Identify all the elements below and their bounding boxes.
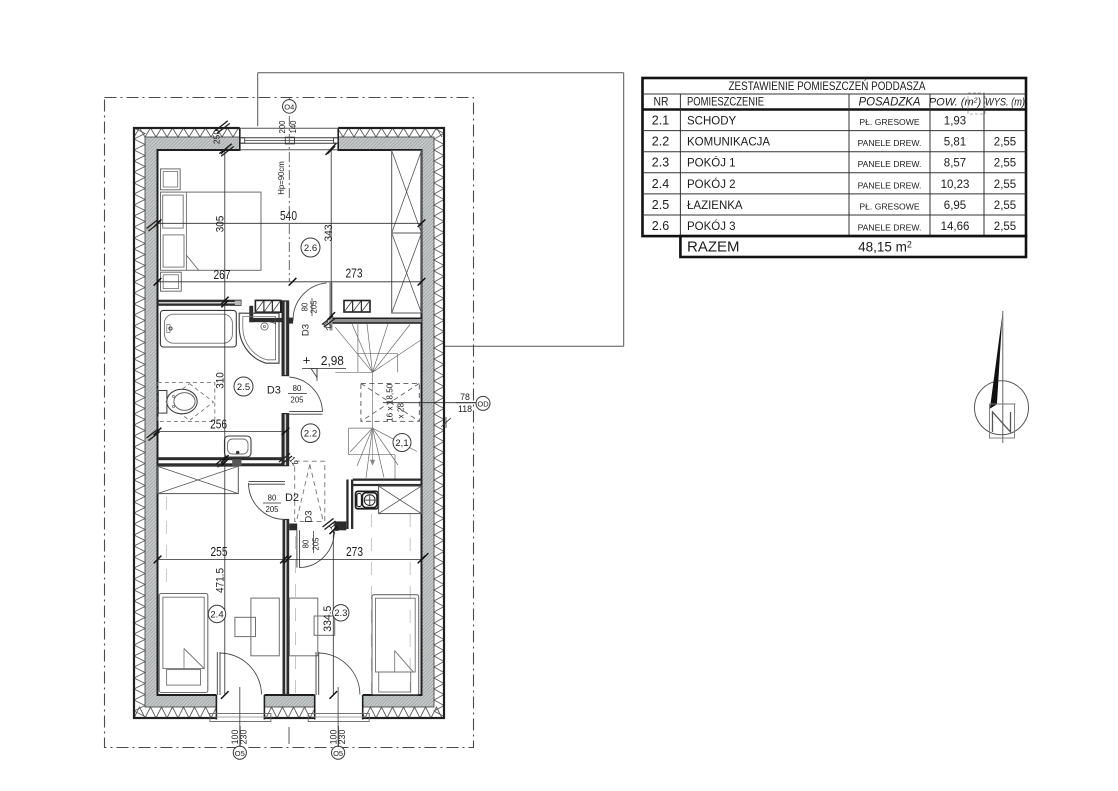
svg-text:6,95: 6,95: [944, 200, 966, 212]
svg-text:256: 256: [210, 418, 227, 432]
svg-text:POKÓJ 3: POKÓJ 3: [687, 220, 736, 233]
svg-text:343: 343: [323, 225, 335, 242]
svg-text:2,55: 2,55: [994, 200, 1016, 212]
svg-text:POMIESZCZENIE: POMIESZCZENIE: [687, 94, 764, 108]
svg-text:SCHODY: SCHODY: [687, 116, 737, 128]
svg-text:2.5: 2.5: [237, 382, 250, 393]
svg-text:540: 540: [280, 209, 297, 223]
svg-text:2.6: 2.6: [652, 219, 669, 233]
svg-text:2.2: 2.2: [304, 429, 317, 440]
svg-text:255: 255: [211, 545, 228, 559]
svg-text:2,55: 2,55: [994, 158, 1016, 170]
svg-text:O5: O5: [235, 749, 245, 758]
svg-text:D3: D3: [303, 510, 314, 522]
svg-text:2,55: 2,55: [994, 137, 1016, 149]
svg-text:80: 80: [293, 384, 302, 393]
svg-text:205: 205: [310, 300, 319, 314]
svg-text:140: 140: [289, 120, 298, 134]
svg-text:ŁAZIENKA: ŁAZIENKA: [687, 200, 743, 212]
svg-text:PANELE DREW.: PANELE DREW.: [858, 223, 922, 233]
svg-text:334.5: 334.5: [322, 606, 334, 632]
svg-text:2.6: 2.6: [304, 243, 317, 254]
svg-text:205: 205: [290, 396, 304, 405]
svg-text:2.4: 2.4: [652, 177, 669, 191]
svg-text:1,93: 1,93: [944, 116, 966, 128]
svg-text:PŁ. GRESOWE: PŁ. GRESOWE: [859, 201, 919, 211]
svg-text:205: 205: [265, 505, 279, 514]
svg-text:310: 310: [214, 372, 226, 389]
svg-text:POKÓJ 2: POKÓJ 2: [687, 178, 736, 191]
svg-text:80: 80: [301, 302, 310, 311]
svg-text:2,55: 2,55: [994, 221, 1016, 233]
svg-text:80: 80: [302, 539, 311, 548]
svg-text:250: 250: [212, 130, 222, 144]
svg-text:2,55: 2,55: [994, 179, 1016, 191]
svg-text:273: 273: [346, 267, 363, 281]
svg-text:200: 200: [278, 120, 287, 134]
svg-text:PANELE DREW.: PANELE DREW.: [858, 180, 922, 190]
svg-text:2.2: 2.2: [652, 135, 669, 149]
svg-text:+: +: [303, 353, 311, 368]
svg-text:WYS. (m): WYS. (m): [985, 97, 1025, 109]
svg-text:RAZEM: RAZEM: [687, 239, 740, 256]
svg-text:305: 305: [214, 216, 226, 233]
svg-text:14,66: 14,66: [941, 221, 970, 233]
svg-text:48,15 m2: 48,15 m2: [858, 240, 912, 255]
svg-text:8,57: 8,57: [944, 158, 966, 170]
svg-text:PŁ. GRESOWE: PŁ. GRESOWE: [859, 117, 919, 127]
svg-text:POW. (m2): POW. (m2): [929, 97, 982, 109]
svg-text:273: 273: [346, 545, 363, 559]
svg-text:2.4: 2.4: [210, 609, 223, 620]
svg-text:PANELE DREW.: PANELE DREW.: [858, 138, 922, 148]
svg-text:2.3: 2.3: [334, 608, 347, 619]
svg-text:205: 205: [312, 537, 321, 551]
svg-text:KOMUNIKACJA: KOMUNIKACJA: [687, 137, 770, 149]
svg-text:118: 118: [458, 404, 472, 414]
svg-text:2,98: 2,98: [321, 353, 344, 368]
svg-text:2,1: 2,1: [395, 438, 408, 449]
svg-text:OD: OD: [477, 400, 489, 409]
svg-text:10,23: 10,23: [941, 179, 970, 191]
svg-text:80: 80: [268, 494, 277, 503]
svg-text:D3: D3: [267, 385, 281, 397]
svg-text:POSADZKA: POSADZKA: [859, 97, 921, 109]
svg-text:Hp=90cm: Hp=90cm: [277, 161, 286, 195]
svg-text:O5: O5: [333, 749, 343, 758]
svg-text:NR: NR: [654, 94, 669, 108]
svg-text:O4: O4: [284, 103, 294, 112]
svg-text:5,81: 5,81: [944, 137, 966, 149]
svg-text:ZESTAWIENIE POMIESZCZEŃ PODDAS: ZESTAWIENIE POMIESZCZEŃ PODDASZA: [729, 78, 926, 93]
svg-text:PANELE DREW.: PANELE DREW.: [858, 159, 922, 169]
svg-text:2.3: 2.3: [652, 156, 669, 170]
svg-text:D3: D3: [301, 324, 312, 336]
svg-text:2.1: 2.1: [652, 114, 669, 128]
svg-text:267: 267: [214, 268, 231, 282]
svg-text:471.5: 471.5: [214, 568, 226, 593]
svg-text:POKÓJ 1: POKÓJ 1: [687, 157, 736, 170]
svg-text:D2: D2: [285, 492, 299, 504]
svg-text:x 28: x 28: [396, 403, 405, 419]
svg-text:2.5: 2.5: [652, 198, 669, 212]
svg-text:78: 78: [460, 392, 470, 402]
